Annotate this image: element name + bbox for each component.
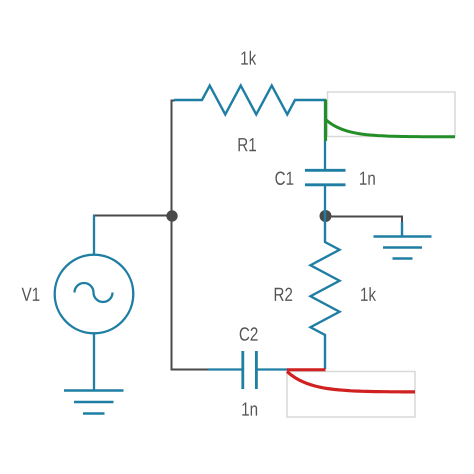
scope window 1 (green trace plot) — [328, 92, 456, 137]
label R2 value 1k — [361, 287, 376, 301]
voltage source V1 — [55, 215, 134, 390]
wire: left rail to C2 left terminal — [171, 369, 209, 371]
wire: node A up to R1 left corner — [172, 101, 176, 217]
label R1 value 1k — [241, 51, 256, 65]
red scope trace flat segment at wire level (node C2/R2) — [287, 368, 326, 371]
label C1 value 1n — [360, 172, 375, 185]
wire: R1 right to C1 top (probed node) — [324, 100, 326, 171]
capacitor C2 — [208, 351, 256, 389]
node B junction dot — [320, 210, 332, 222]
scope window 2 (red trace plot) — [287, 372, 415, 418]
label V1 — [22, 288, 40, 301]
label C2 — [240, 327, 258, 341]
label C1 — [275, 172, 293, 186]
ground symbol (below V1) — [64, 391, 124, 414]
node A junction dot — [166, 210, 177, 221]
ground symbol (right, at node B) — [374, 222, 432, 259]
wire: C2 right to R2 bottom (probed node) — [256, 368, 288, 370]
label C2 value 1n — [242, 403, 257, 416]
label R2 — [275, 288, 293, 301]
wire: node B to right ground corner — [326, 216, 403, 223]
resistor R1 — [174, 86, 326, 115]
label R1 — [239, 138, 257, 151]
capacitor C1 — [305, 170, 346, 212]
resistor R2 — [311, 210, 340, 369]
green scope trace (node R1/C1 voltage) — [326, 100, 455, 142]
wire: node A down left rail — [171, 215, 173, 370]
wire: V1 positive terminal to node A — [93, 215, 172, 217]
red scope trace decay curve (node C2/R2 voltage) — [287, 372, 415, 392]
